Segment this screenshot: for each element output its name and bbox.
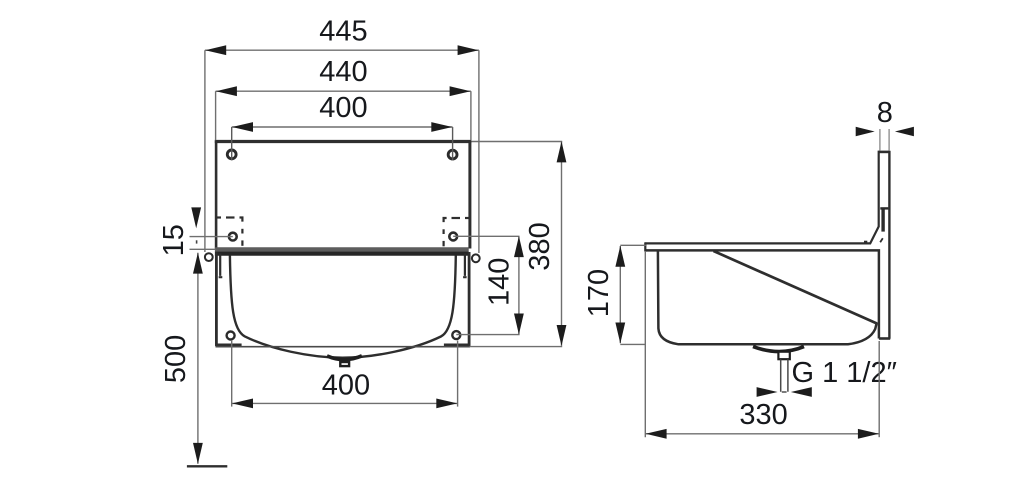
screw hole top-right — [448, 127, 457, 161]
dimension 15 — [158, 207, 233, 256]
dimension 445 — [205, 16, 479, 254]
dimension 500 — [160, 253, 203, 464]
svg-text:140: 140 — [483, 258, 515, 306]
rim front — [215, 249, 469, 253]
svg-text:380: 380 — [524, 222, 556, 270]
drain pipe — [781, 359, 788, 391]
basin outline — [230, 256, 456, 358]
svg-text:400: 400 — [319, 92, 367, 124]
wall plate — [645, 151, 890, 339]
dimension 400 top — [232, 92, 453, 132]
drain front — [327, 356, 362, 360]
dashed box left — [217, 218, 243, 246]
screw hole bottom-right — [452, 331, 460, 339]
svg-text:500: 500 — [160, 335, 192, 383]
dimension 380 — [470, 141, 567, 346]
backplate panel — [215, 141, 472, 249]
basin diagonal — [714, 251, 877, 324]
tab slot right — [463, 254, 467, 278]
mounting hook — [880, 208, 888, 231]
rim left cap — [644, 242, 646, 251]
pipe arrows — [757, 387, 812, 397]
svg-text:330: 330 — [739, 399, 787, 431]
basin outline side — [658, 252, 877, 345]
drain outlet front — [340, 362, 349, 366]
dimension 140 — [453, 236, 524, 335]
screw hole top-left — [227, 127, 236, 160]
dimension 330 — [645, 252, 879, 439]
svg-text:400: 400 — [322, 370, 370, 402]
side tab hole right — [472, 254, 480, 262]
dimension 170 — [583, 245, 646, 344]
svg-text:8: 8 — [877, 97, 893, 129]
svg-text:440: 440 — [319, 56, 367, 88]
side tab hole left — [205, 253, 213, 261]
rim side (bottom line + basin back) — [645, 250, 879, 338]
drain outlet side — [778, 352, 789, 360]
shell right wall — [444, 252, 470, 346]
shell bottom line — [216, 346, 471, 348]
svg-text:445: 445 — [319, 16, 367, 48]
svg-text:170: 170 — [583, 269, 615, 317]
svg-text:G 1 1/2″: G 1 1/2″ — [792, 357, 897, 389]
shell left wall — [215, 252, 241, 346]
dashed box right — [444, 218, 469, 246]
dimension 400 bottom — [232, 341, 458, 409]
floor line — [187, 465, 227, 467]
screw hole mid-left — [229, 233, 237, 241]
screw hole mid-right — [449, 233, 457, 241]
screw hole bottom-left — [227, 332, 235, 340]
tab slot left — [219, 254, 223, 278]
drain dish side — [753, 347, 804, 352]
dimension 8 — [856, 97, 914, 150]
bend dashes — [880, 238, 883, 242]
dimension 440 — [216, 56, 471, 140]
svg-text:15: 15 — [158, 224, 190, 256]
